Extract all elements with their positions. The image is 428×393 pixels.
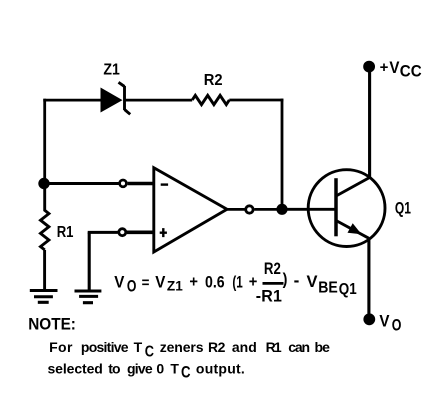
- svg-text:can: can: [288, 339, 309, 355]
- label Q1: [395, 200, 411, 218]
- terminal: non-inverting input open circle: [119, 229, 126, 236]
- wire: output node to Q1 base: [282, 208, 336, 211]
- label R1: [57, 224, 74, 241]
- label R2: [204, 71, 223, 89]
- svg-text:zeners: zeners: [160, 339, 204, 355]
- svg-text:For: For: [49, 339, 73, 355]
- ground (below R1): [30, 291, 58, 303]
- node A: inverting summing junction: [38, 178, 49, 189]
- wire: R1 bottom to ground: [43, 250, 46, 290]
- terminal VO: [363, 313, 375, 325]
- svg-text:NOTE:: NOTE:: [28, 316, 76, 334]
- resistor R2: [192, 95, 229, 104]
- wire: Q1 collector to +VCC: [368, 67, 371, 179]
- svg-text:C: C: [145, 343, 155, 361]
- svg-text:+: +: [380, 59, 389, 76]
- svg-text:be: be: [315, 339, 331, 355]
- wire: node A to inverting input terminal: [44, 182, 119, 185]
- svg-text:to: to: [108, 360, 120, 376]
- terminal: op-amp output open circle: [246, 206, 253, 213]
- svg-text:R1: R1: [266, 339, 282, 355]
- svg-text:Q1: Q1: [339, 281, 357, 298]
- svg-text:0.6: 0.6: [205, 273, 225, 291]
- svg-text:R2: R2: [204, 71, 223, 89]
- svg-text:V: V: [389, 58, 399, 77]
- svg-text:T: T: [170, 360, 179, 376]
- svg-text:(1: (1: [232, 273, 242, 291]
- wire: riser corner to non-inverting terminal: [88, 231, 118, 234]
- svg-text:O: O: [392, 317, 402, 335]
- svg-text:C: C: [181, 363, 191, 382]
- terminal +VCC: [363, 61, 375, 73]
- svg-text:V: V: [379, 312, 389, 331]
- svg-text:O: O: [127, 278, 137, 296]
- svg-text:Z1: Z1: [167, 278, 183, 293]
- svg-text:Z1: Z1: [103, 61, 119, 79]
- transistor Q1: [308, 170, 385, 247]
- wire: top rail from corner to Z1 anode: [43, 99, 101, 102]
- svg-text:V: V: [155, 274, 166, 292]
- wire: left rail vertical from top corner down to node A: [43, 99, 46, 184]
- node: output junction: [276, 204, 287, 215]
- svg-text:give: give: [127, 360, 153, 376]
- svg-text:positive: positive: [81, 339, 129, 355]
- svg-text:R1: R1: [57, 224, 74, 241]
- svg-text:R2: R2: [208, 339, 226, 355]
- note line 2: [48, 360, 246, 382]
- svg-text:Q1: Q1: [395, 200, 411, 218]
- wire: Q1 emitter to VO: [367, 238, 370, 314]
- terminal: inverting input open circle: [120, 180, 127, 187]
- wire: inverting terminal to op-amp: [128, 182, 155, 186]
- svg-text:V: V: [114, 274, 125, 292]
- wire: op-amp tip to output terminal: [226, 208, 245, 211]
- op-amp U1: [154, 168, 227, 252]
- svg-text:): ): [283, 271, 288, 289]
- svg-text:-: -: [294, 269, 300, 290]
- ground (non-inverting input): [75, 291, 102, 303]
- label +VCC: [380, 58, 422, 81]
- svg-text:CC: CC: [400, 62, 422, 81]
- wire: Z1 cathode to R2: [125, 99, 193, 102]
- formula: VO = VZ1 + 0.6 (1 + R2/R1) - VBEQ1: [114, 260, 357, 306]
- svg-text:V: V: [307, 272, 319, 291]
- note heading: [28, 316, 76, 334]
- svg-text:-R1: -R1: [256, 287, 282, 305]
- zener diode Z1: [101, 82, 131, 114]
- svg-text:BE: BE: [318, 279, 338, 297]
- svg-text:selected: selected: [48, 360, 103, 376]
- wire: non-inverting terminal to op-amp: [127, 231, 155, 235]
- resistor R1: [41, 184, 49, 250]
- svg-text:+: +: [189, 273, 198, 290]
- svg-text:T: T: [134, 339, 143, 355]
- wire: output terminal to output node: [254, 208, 282, 211]
- svg-text:=: =: [142, 275, 150, 292]
- svg-text:output.: output.: [196, 360, 245, 376]
- wire: right rail vertical down to output node: [281, 99, 284, 210]
- label VO: [379, 312, 401, 335]
- svg-text:0: 0: [156, 360, 164, 376]
- note line 1: [49, 339, 330, 361]
- label Z1: [103, 61, 119, 79]
- wire: R2 to right corner: [229, 99, 283, 102]
- svg-text:and: and: [232, 339, 257, 355]
- svg-text:R2: R2: [264, 260, 281, 279]
- wire: non-inverting ground riser: [88, 232, 91, 289]
